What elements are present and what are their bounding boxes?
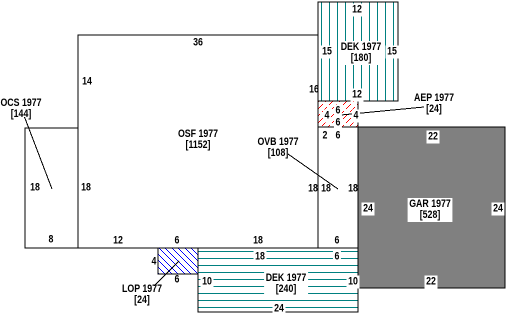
dim 4 (AEP right) bbox=[351, 109, 359, 122]
dim 2 (OVB top) bbox=[322, 131, 327, 142]
dim 4 (LOP left) bbox=[152, 256, 157, 267]
dim 10 (DEK-240 right) bbox=[346, 276, 359, 289]
dim 15 (DEK-180 left) bbox=[321, 46, 334, 59]
parcel GAR 1977 gray box bbox=[358, 127, 505, 288]
label LOP 1977 [24] bbox=[122, 284, 162, 306]
dim 6 (OVB bottom) bbox=[334, 236, 339, 247]
dim 6 (AEP bottom) bbox=[334, 116, 342, 129]
dim 6 (LOP bottom) bbox=[174, 275, 179, 286]
pointer line OVB label bbox=[288, 154, 338, 189]
label DEK 1977 [180] bbox=[339, 41, 383, 65]
pointer line AEP label bbox=[334, 107, 424, 115]
dim 15 (DEK-180 right) bbox=[386, 46, 399, 59]
parcel DEK 1977 [180] hatched box bbox=[318, 2, 398, 101]
parcel OSF 1977 outline bbox=[78, 35, 318, 248]
dim 24 (DEK-240 bottom) bbox=[272, 303, 285, 316]
dim 12 (OSF bottom) bbox=[113, 236, 123, 247]
parcel LOP 1977 hatched box bbox=[158, 248, 198, 274]
label GAR 1977 [528] bbox=[408, 198, 453, 222]
label AEP 1977 [24] bbox=[414, 93, 454, 115]
parcel OCS 1977 outline bbox=[25, 128, 78, 248]
dim 18 (OSF bottom right) bbox=[253, 236, 263, 247]
label DEK 1977 [240] bbox=[264, 272, 308, 296]
parcel DEK 1977 [240] hatched box bbox=[198, 248, 358, 312]
dim 24 (GAR left) bbox=[362, 203, 375, 216]
dim 6 (DEK-240 top right) bbox=[332, 251, 340, 264]
label OVB 1977 [108] bbox=[257, 137, 298, 159]
dim 36 (OSF top) bbox=[193, 37, 203, 48]
pointer line OCS label bbox=[25, 117, 53, 189]
parcel AEP 1977 hatched box bbox=[318, 101, 358, 127]
dim 10 (DEK-240 left) bbox=[201, 276, 214, 289]
wire OSF bottom edge extension under OCS bbox=[25, 247, 78, 249]
label OCS 1977 [144] bbox=[0, 98, 41, 120]
dim 4 (AEP left) bbox=[322, 109, 330, 122]
dim 14 (OSF upper-left) bbox=[82, 77, 92, 88]
pointer line LOP label bbox=[154, 261, 179, 286]
dim 22 (GAR bottom) bbox=[425, 276, 438, 289]
dim 12 (DEK-180 bottom) bbox=[350, 89, 363, 102]
dim 18 (OVB right) bbox=[348, 184, 358, 195]
dim 18 (OSF left) bbox=[81, 183, 91, 194]
label OSF 1977 [1152] bbox=[178, 129, 218, 151]
dim 24 (GAR right) bbox=[492, 203, 505, 216]
dim 18 (OSF right) bbox=[308, 184, 318, 195]
dim 18 (DEK-240 top) bbox=[253, 251, 266, 264]
dim 18 (OVB left) bbox=[321, 184, 331, 195]
dim 22 (GAR top) bbox=[427, 131, 440, 144]
dim 6 (OSF bottom near LOP) bbox=[174, 236, 179, 247]
dim 18 (OCS left) bbox=[30, 183, 40, 194]
dim 12 (DEK-180 top) bbox=[350, 3, 363, 16]
dim 6 (OVB top) bbox=[335, 131, 340, 142]
dim 16 (left of DEK-180) bbox=[309, 84, 319, 95]
dim 8 (OCS bottom) bbox=[49, 234, 54, 245]
dim 6 (AEP top) bbox=[334, 104, 342, 117]
